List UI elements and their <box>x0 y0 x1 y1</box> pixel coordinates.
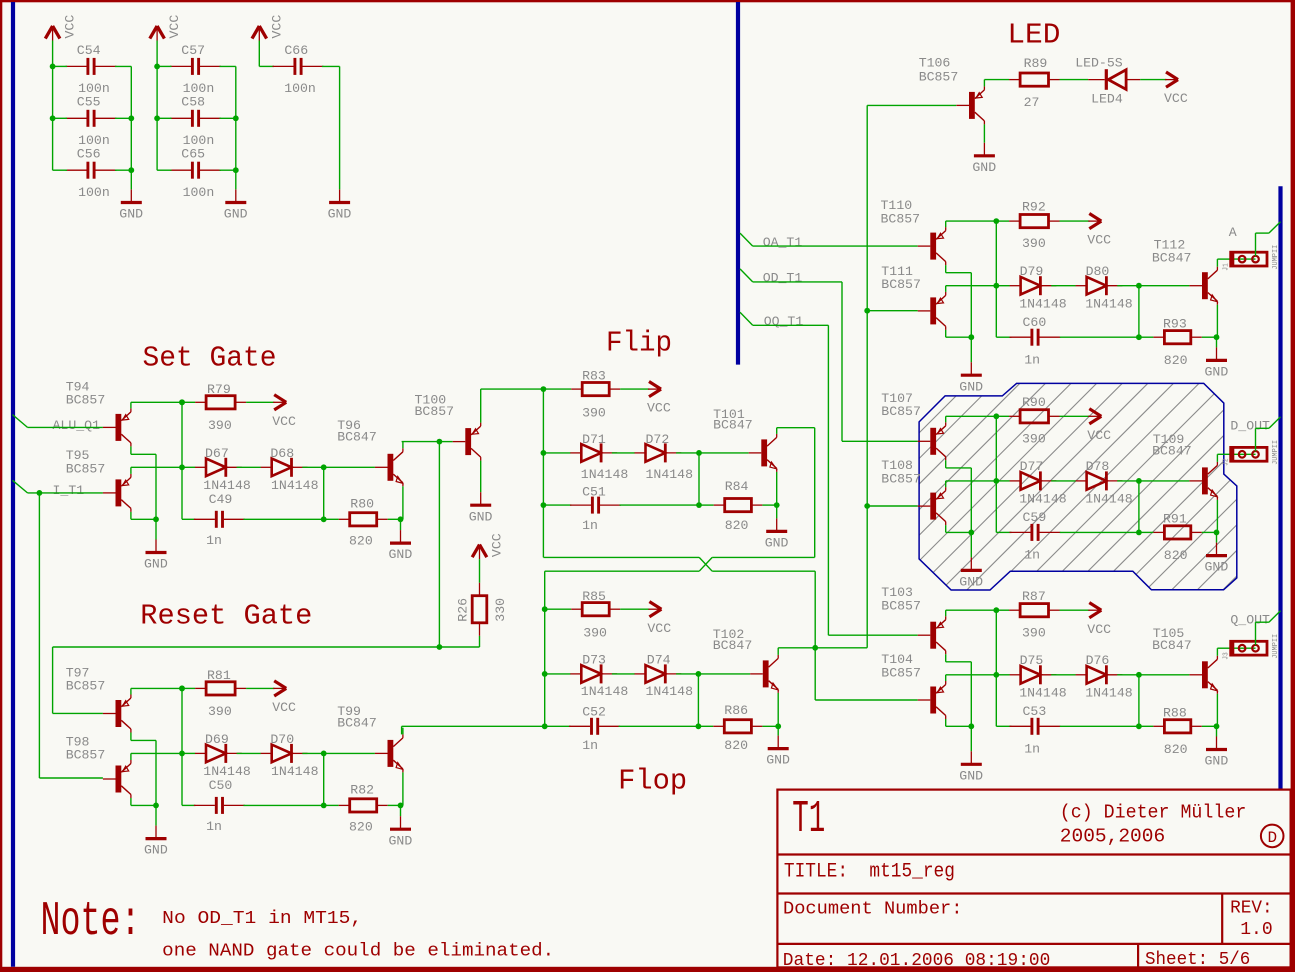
wire <box>182 687 195 689</box>
junction <box>233 167 239 173</box>
resistor R84 <box>714 499 763 512</box>
wire <box>130 753 132 760</box>
wire I_T1 to T98 <box>38 493 40 778</box>
wire <box>970 532 972 557</box>
wire <box>322 65 340 67</box>
svg-text:GND: GND <box>389 547 413 562</box>
wire <box>1202 531 1217 533</box>
wire <box>1051 480 1076 482</box>
wire <box>157 117 171 119</box>
svg-text:GND: GND <box>1205 365 1229 380</box>
wire <box>235 188 237 190</box>
VCC arrow at R85 <box>648 602 661 617</box>
junction <box>993 413 999 419</box>
wire <box>131 804 156 806</box>
svg-text:R86: R86 <box>724 703 748 718</box>
capacitor C59 <box>1010 524 1061 541</box>
svg-text:330: 330 <box>493 598 508 622</box>
svg-text:A: A <box>1229 225 1237 240</box>
wire cross bottom right <box>712 570 815 572</box>
svg-text:OD_T1: OD_T1 <box>763 271 803 286</box>
capacitor C58 <box>170 110 221 127</box>
VCC symbol R26 <box>472 545 487 560</box>
wire <box>762 725 778 727</box>
wire <box>945 286 947 292</box>
title block logo circle D <box>1261 825 1284 848</box>
VCC arrow at R90 <box>1088 409 1101 424</box>
bus middle <box>736 2 740 365</box>
svg-text:VCC: VCC <box>647 621 671 636</box>
junction <box>864 503 870 509</box>
capacitor C66 <box>273 58 324 75</box>
junction <box>542 671 548 677</box>
ground below R86 <box>768 736 789 749</box>
resistor R88 <box>1153 720 1201 733</box>
svg-text:BC857: BC857 <box>415 404 455 419</box>
wire <box>698 453 700 505</box>
svg-text:JUMPII: JUMPII <box>1272 245 1280 270</box>
wire <box>1138 481 1140 533</box>
resistor R83 <box>571 383 620 396</box>
wire <box>776 505 778 518</box>
wire <box>131 752 182 754</box>
wire T111 base <box>867 310 918 312</box>
wire <box>996 220 1009 222</box>
wire <box>220 169 236 171</box>
wire <box>220 117 236 119</box>
wire <box>620 504 700 506</box>
svg-text:VCC: VCC <box>269 15 284 39</box>
svg-text:VCC: VCC <box>63 15 78 39</box>
svg-text:1N4148: 1N4148 <box>646 467 694 482</box>
svg-text:BC857: BC857 <box>881 598 921 613</box>
junction <box>154 115 160 121</box>
wire <box>115 117 131 119</box>
wire rail <box>995 416 997 532</box>
resistor R93 <box>1153 331 1201 344</box>
svg-text:GND: GND <box>766 753 790 768</box>
wire rail <box>52 41 54 171</box>
VCC arrow at R92 <box>1088 214 1101 229</box>
junction <box>774 502 780 508</box>
VCC symbol cap bank 1 <box>45 26 60 41</box>
page border inner bottom <box>0 967 1295 972</box>
junction <box>542 723 548 729</box>
wire <box>996 285 1010 287</box>
wire <box>131 453 156 455</box>
wire ALU_Q1 <box>28 426 103 428</box>
wire <box>776 472 778 505</box>
wire <box>983 124 985 142</box>
wire <box>1051 285 1076 287</box>
svg-text:C65: C65 <box>181 147 205 162</box>
bus entry Q_OUT <box>1269 611 1281 622</box>
transistor T98 symbol <box>103 760 131 798</box>
wire <box>402 772 404 805</box>
wire <box>946 609 997 611</box>
wire <box>401 726 403 734</box>
wire <box>400 519 402 530</box>
wire <box>130 798 132 805</box>
svg-text:820: 820 <box>1164 742 1188 757</box>
junction <box>321 464 327 470</box>
diode D69 <box>195 744 242 763</box>
svg-text:VCC: VCC <box>1164 91 1188 106</box>
wire OD_T1 to T107 <box>842 440 918 442</box>
diode D75 <box>1010 665 1057 684</box>
diode D73 <box>570 664 617 683</box>
transistor T100 symbol <box>453 423 481 461</box>
transistor T106 symbol <box>956 86 984 124</box>
svg-text:BC857: BC857 <box>881 665 921 680</box>
svg-text:BC857: BC857 <box>881 471 921 486</box>
capacitor C50 <box>194 797 245 814</box>
wire <box>402 441 440 443</box>
wire <box>699 452 749 454</box>
wire <box>1117 480 1139 482</box>
wire flop output <box>778 647 815 649</box>
junction <box>993 478 999 484</box>
junction <box>37 490 43 496</box>
wire rail <box>235 66 237 189</box>
wire OQ_T1 to T103 <box>828 634 917 636</box>
svg-text:VCC: VCC <box>647 401 671 416</box>
svg-text:GND: GND <box>1205 560 1229 575</box>
svg-text:D_OUT: D_OUT <box>1230 419 1270 434</box>
wire <box>1060 531 1139 533</box>
wire <box>996 609 1009 611</box>
wire <box>1231 453 1256 455</box>
svg-text:Document Number:: Document Number: <box>783 898 963 919</box>
svg-text:GND: GND <box>959 575 983 590</box>
capacitor C51 <box>570 497 621 514</box>
junction <box>1214 723 1220 729</box>
wire <box>945 719 947 726</box>
svg-text:(c) Dieter Müller: (c) Dieter Müller <box>1060 802 1247 824</box>
wire <box>1216 648 1218 656</box>
svg-text:GND: GND <box>224 207 248 222</box>
svg-text:R26: R26 <box>456 598 471 622</box>
ground below R93 <box>1206 347 1227 360</box>
wire flip output down <box>814 428 816 558</box>
junction <box>1136 334 1142 340</box>
resistor R26 <box>472 583 487 636</box>
junction <box>1214 334 1220 340</box>
wire <box>480 389 482 423</box>
capacitor C53 <box>1010 718 1061 735</box>
ground left of R91 <box>961 557 982 570</box>
svg-text:T1: T1 <box>792 794 825 845</box>
wire <box>946 336 972 338</box>
wire <box>246 687 274 689</box>
wire <box>323 753 325 805</box>
svg-text:1N4148: 1N4148 <box>581 684 629 699</box>
LED LED4 <box>1088 69 1140 90</box>
diode D79 <box>1010 276 1057 295</box>
wire <box>545 673 571 675</box>
ground below T106 <box>974 143 995 156</box>
ground left of R88 <box>961 751 982 764</box>
wire <box>155 740 157 805</box>
svg-text:1N4148: 1N4148 <box>581 467 629 482</box>
svg-text:C66: C66 <box>284 43 308 58</box>
diode D76 <box>1076 665 1123 684</box>
wire <box>945 265 947 273</box>
junction <box>437 439 443 445</box>
wire <box>777 726 779 735</box>
junction <box>437 644 443 650</box>
resistor R82 <box>339 799 388 812</box>
svg-text:1.0: 1.0 <box>1240 919 1273 940</box>
wire rail <box>130 66 132 189</box>
svg-text:Set Gate: Set Gate <box>143 341 277 374</box>
VCC arrow at LED4 <box>1165 72 1178 87</box>
transistor T110 symbol <box>918 227 946 265</box>
wire <box>1231 258 1256 260</box>
wire rail <box>181 688 183 805</box>
svg-text:1n: 1n <box>206 819 222 834</box>
wire <box>543 388 571 390</box>
svg-text:C50: C50 <box>209 778 233 793</box>
wire <box>237 466 261 468</box>
wire <box>182 752 195 754</box>
wire <box>946 661 972 663</box>
pad 1 of connector D_OUT (J2) <box>1239 451 1246 458</box>
wire <box>182 401 195 403</box>
wire <box>115 169 131 171</box>
svg-text:TITLE: mt15_reg: TITLE: mt15_reg <box>784 860 955 883</box>
svg-text:J3: J3 <box>1222 652 1230 660</box>
transistor T104 symbol <box>918 681 946 719</box>
wire <box>945 460 947 468</box>
wire <box>946 725 972 727</box>
wire T100 to flip <box>481 388 544 390</box>
svg-text:C56: C56 <box>77 147 101 162</box>
junction <box>398 516 404 522</box>
wire Q node vertical <box>866 105 868 647</box>
svg-text:C57: C57 <box>181 43 205 58</box>
junction <box>968 334 974 340</box>
wire <box>984 79 1009 81</box>
title block frame <box>777 790 1290 968</box>
wire <box>945 330 947 337</box>
wire <box>1217 647 1230 649</box>
svg-text:1n: 1n <box>206 533 222 548</box>
wire <box>131 518 156 520</box>
wire <box>1255 622 1257 645</box>
wire cross bottom left <box>545 570 700 572</box>
wire rail <box>995 610 997 726</box>
svg-text:390: 390 <box>582 406 606 421</box>
wire <box>777 693 779 726</box>
svg-text:1N4148: 1N4148 <box>1019 296 1067 311</box>
ground below T95 <box>146 540 167 553</box>
resistor R90 <box>1009 410 1059 423</box>
svg-text:C53: C53 <box>1023 704 1047 719</box>
wire <box>620 608 649 610</box>
capacitor C55 <box>66 110 117 127</box>
ground below T98 <box>146 826 167 839</box>
junction <box>179 751 185 757</box>
junction <box>1136 672 1142 678</box>
svg-text:Q_OUT: Q_OUT <box>1230 612 1270 627</box>
junction <box>398 803 404 809</box>
svg-text:C51: C51 <box>582 484 606 499</box>
svg-text:ALU_Q1: ALU_Q1 <box>53 418 101 433</box>
wire <box>1216 305 1218 338</box>
wire <box>302 752 323 754</box>
junction <box>1136 283 1142 289</box>
wire <box>946 272 972 274</box>
svg-text:1N4148: 1N4148 <box>271 764 319 779</box>
wire <box>400 805 402 816</box>
wire <box>131 401 182 403</box>
diode D78 <box>1076 471 1123 490</box>
svg-text:VCC: VCC <box>490 533 505 557</box>
wire <box>1139 725 1154 727</box>
svg-text:27: 27 <box>1024 95 1040 110</box>
wire <box>402 728 404 735</box>
wire OA_T1 <box>753 245 918 247</box>
svg-text:1N4148: 1N4148 <box>271 478 319 493</box>
wire cross diagonal down <box>699 557 712 571</box>
wire <box>479 559 481 583</box>
wire <box>543 452 570 454</box>
ground left of R93 <box>961 362 982 375</box>
wire <box>619 725 699 727</box>
svg-text:BC857: BC857 <box>881 211 921 226</box>
wire <box>439 646 479 648</box>
pad 2 of connector D_OUT (J2) <box>1252 451 1259 458</box>
junction <box>1136 478 1142 484</box>
svg-text:Flop: Flop <box>618 764 687 797</box>
junction <box>179 399 185 405</box>
wire <box>339 188 341 190</box>
svg-text:820: 820 <box>349 820 373 835</box>
resistor R86 <box>713 720 762 733</box>
wire <box>1139 531 1154 533</box>
svg-text:390: 390 <box>208 418 232 433</box>
wire to T97 base <box>53 712 103 714</box>
svg-text:Reset Gate: Reset Gate <box>140 600 312 633</box>
svg-text:390: 390 <box>208 704 232 719</box>
svg-text:BC857: BC857 <box>919 69 959 84</box>
bus right <box>1278 186 1282 789</box>
wire <box>1256 232 1269 234</box>
svg-text:GND: GND <box>469 509 493 524</box>
junction <box>775 723 781 729</box>
wire <box>1060 725 1139 727</box>
svg-text:GND: GND <box>1205 754 1229 769</box>
wire <box>1216 259 1218 267</box>
wire <box>762 504 776 506</box>
wire <box>996 336 1011 338</box>
resistor R87 <box>1009 604 1059 617</box>
wire <box>243 804 323 806</box>
svg-text:390: 390 <box>1022 625 1046 640</box>
svg-text:VCC: VCC <box>272 414 296 429</box>
wire <box>1216 532 1218 542</box>
wire <box>402 442 404 449</box>
pad 2 of connector A (J1) <box>1252 256 1259 263</box>
wire reset output <box>402 725 544 727</box>
wire <box>402 486 404 519</box>
wire <box>945 675 947 681</box>
svg-text:BC857: BC857 <box>66 392 106 407</box>
wire <box>1256 621 1269 623</box>
diode D67 <box>195 458 242 477</box>
svg-text:BC847: BC847 <box>1152 444 1192 459</box>
wire <box>946 531 972 533</box>
ground below R91 <box>1206 543 1227 556</box>
bus entry OA_T1 <box>740 233 753 246</box>
wire <box>945 610 947 616</box>
wire rail flop <box>544 571 546 726</box>
wire <box>970 726 972 751</box>
wire <box>480 461 482 492</box>
ground below R80 <box>390 530 411 543</box>
svg-text:GND: GND <box>959 379 983 394</box>
junction <box>153 803 159 809</box>
capacitor C56 <box>66 162 117 179</box>
wire T108 base <box>867 505 918 507</box>
wire <box>439 441 452 443</box>
junction <box>128 115 134 121</box>
wire <box>1060 336 1139 338</box>
wire <box>1140 79 1166 81</box>
bus entry A <box>1269 222 1281 233</box>
junction <box>993 218 999 224</box>
ground below R84 <box>766 518 787 531</box>
svg-text:J2: J2 <box>1222 458 1230 466</box>
wire <box>1216 454 1218 462</box>
VCC arrow at R81 <box>273 681 286 696</box>
capacitor C49 <box>194 511 245 528</box>
svg-text:VCC: VCC <box>1087 428 1111 443</box>
transistor T99 symbol <box>375 734 403 772</box>
junction <box>993 672 999 678</box>
svg-text:1N4148: 1N4148 <box>203 478 251 493</box>
svg-text:1N4148: 1N4148 <box>1085 296 1133 311</box>
wire <box>946 674 997 676</box>
wire <box>324 466 375 468</box>
wire <box>1138 286 1140 338</box>
wire <box>543 504 571 506</box>
junction <box>321 751 327 757</box>
wire <box>698 725 713 727</box>
connector D_OUT (J2) <box>1230 447 1267 461</box>
wire <box>115 65 131 67</box>
wire <box>945 416 947 422</box>
ground cap bank 3 <box>329 190 350 203</box>
svg-text:R90: R90 <box>1022 395 1046 410</box>
svg-text:OQ_T1: OQ_T1 <box>764 314 804 329</box>
wire <box>545 608 572 610</box>
wire <box>1139 285 1190 287</box>
wire <box>1255 428 1257 451</box>
VCC symbol cap bank 2 <box>150 26 165 41</box>
wire <box>182 466 195 468</box>
bus entry OQ_T1 <box>740 312 753 325</box>
svg-text:BC857: BC857 <box>66 461 106 476</box>
svg-text:BC847: BC847 <box>1152 250 1192 265</box>
wire <box>1060 220 1090 222</box>
wire <box>130 402 132 408</box>
wire <box>1231 647 1256 649</box>
svg-text:OA_T1: OA_T1 <box>763 235 803 250</box>
junction <box>154 64 160 70</box>
resistor R89 <box>1009 73 1059 86</box>
